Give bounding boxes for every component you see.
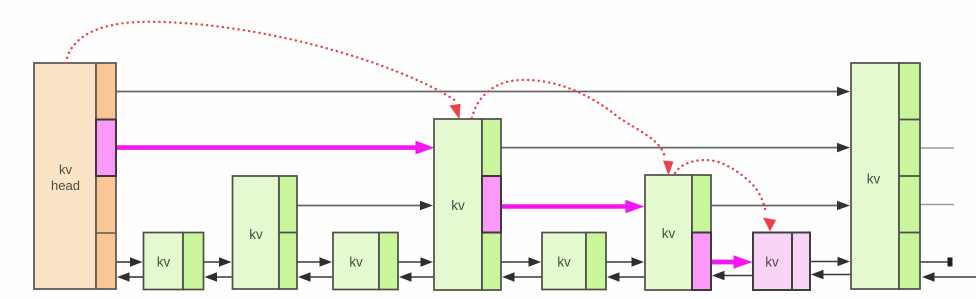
node7 kv pink <box>753 233 810 291</box>
node5 kv <box>542 233 606 290</box>
wire level0 back node2 to node1 <box>205 272 233 281</box>
node6 kv <box>645 175 711 290</box>
svg-text:kv: kv <box>557 255 571 270</box>
wire level0 forward node7 to node8 <box>810 257 850 266</box>
wire level0 back node5 to node4 <box>502 272 542 281</box>
svg-text:kv: kv <box>59 162 73 177</box>
node6 highlighted cell <box>692 233 711 291</box>
wire level0 back node1 to head <box>117 272 144 281</box>
wire level2 node4 to node8 <box>501 147 840 149</box>
wire level0 forward node8 to null terminator <box>920 258 953 267</box>
wire level1 node2 to node4 <box>297 205 424 207</box>
node8 kv tall right <box>851 63 920 289</box>
svg-text:kv: kv <box>157 255 171 270</box>
red dotted arc head to node4 <box>66 22 456 101</box>
wire level0 back node8 to node7 <box>811 270 851 279</box>
node2 kv <box>233 176 298 289</box>
magenta arrow level0 node6 to node7 <box>711 255 753 269</box>
wire level0 back node4 to node3 <box>399 272 434 281</box>
svg-text:kv: kv <box>451 198 465 213</box>
red dotted arc node4 to node6 <box>472 80 665 157</box>
svg-text:kv: kv <box>867 172 881 187</box>
svg-text:kv: kv <box>765 255 779 270</box>
wire level1 node6 to node8 <box>711 205 840 207</box>
wire level0 forward node3 to node4 <box>398 257 433 266</box>
svg-text:head: head <box>51 178 80 193</box>
wire level0 forward node2 to node3 <box>297 257 332 266</box>
red dotted arc node6 to node7 <box>675 160 766 213</box>
wire level0 back node6 to node5 <box>607 272 645 281</box>
node kv head pointer column <box>96 63 116 289</box>
wire level0 forward node1 to node2 <box>204 257 232 266</box>
node3 kv <box>333 233 398 290</box>
node kv head body <box>34 63 96 289</box>
wire level0 back node3 to node2 <box>298 272 333 281</box>
wire node8 level2 continuation <box>920 147 954 149</box>
wire level0 back offscreen to node8 <box>922 272 976 281</box>
svg-text:kv: kv <box>662 226 676 241</box>
wire level3 head to node8 <box>116 91 840 93</box>
wire level0 forward head to node1 <box>116 257 143 266</box>
node kv head highlighted cell <box>96 120 116 177</box>
node4 highlighted cell <box>482 176 501 233</box>
magenta arrow level1 node4 to node6 <box>501 200 645 214</box>
wire level0 forward node4 to node5 <box>501 257 541 266</box>
svg-text:kv: kv <box>249 227 263 242</box>
magenta arrow level2 head to node4 <box>116 141 435 155</box>
wire level0 back node7 to node6 <box>712 271 753 280</box>
node1 kv <box>144 233 204 290</box>
wire node8 level1 continuation <box>920 204 954 206</box>
wire level0 forward node5 to node6 <box>606 257 644 266</box>
node4 kv tall <box>434 119 501 290</box>
svg-text:kv: kv <box>349 255 363 270</box>
